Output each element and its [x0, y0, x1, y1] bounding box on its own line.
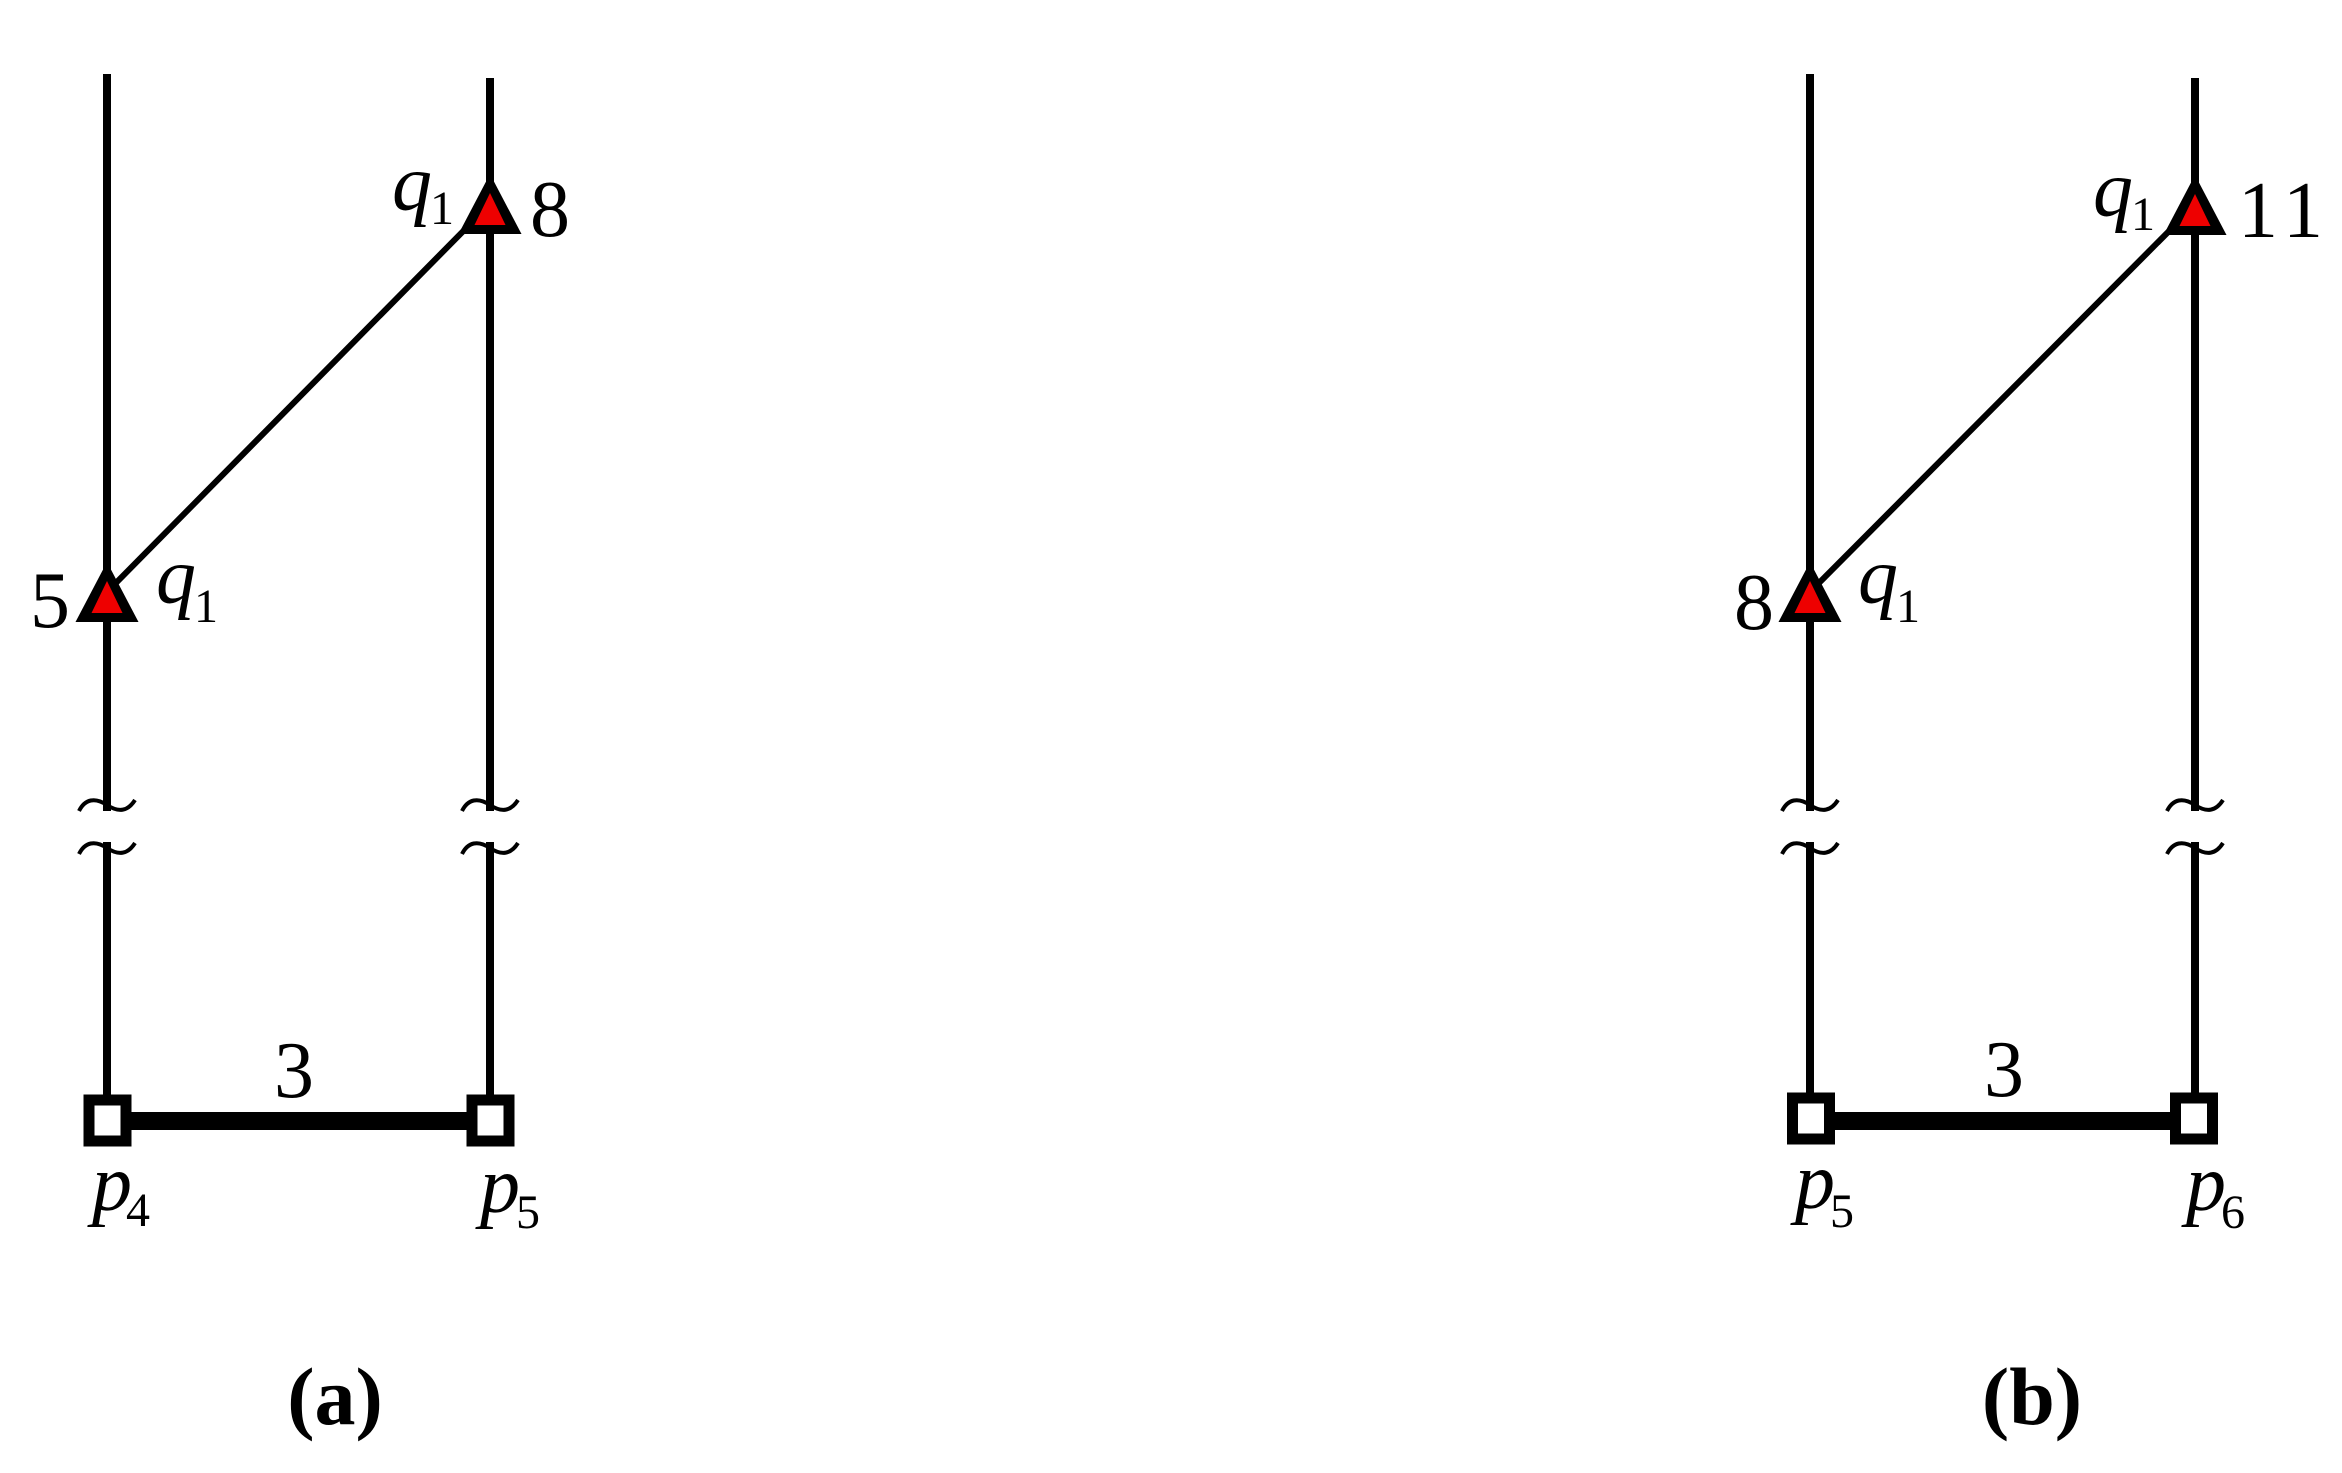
triangle marker q1 on p4 line (black outer): [76, 562, 139, 622]
svg-text:3: 3: [274, 1027, 314, 1115]
triangle marker q1 on p5 line (red inner): [475, 193, 506, 225]
svg-text:8: 8: [1734, 559, 1774, 647]
triangle marker q1 on p5 line (black outer): [459, 174, 522, 234]
wire: vertical line p6 upper segment: [2191, 78, 2199, 811]
wire: vertical line p5b lower segment: [1806, 842, 1814, 1096]
svg-text:11: 11: [2238, 167, 2331, 255]
svg-text:q: q: [156, 533, 196, 621]
svg-text:8: 8: [530, 166, 570, 254]
break mark upper tilde on p5b line: [1782, 800, 1838, 811]
triangle marker q1 on p5b line (red inner): [1795, 581, 1826, 613]
wire: vertical line p5b upper segment: [1806, 74, 1814, 811]
triangle marker q1 on p4 line (red inner): [92, 581, 123, 613]
wire: diagonal q1-q1 link (a): [107, 204, 490, 592]
svg-text:5: 5: [516, 1186, 540, 1239]
svg-text:p: p: [2181, 1140, 2226, 1228]
wire: vertical line p6 lower segment: [2191, 842, 2199, 1096]
svg-text:3: 3: [1984, 1026, 2024, 1114]
node square p4: [89, 1100, 126, 1141]
break mark lower tilde on p4 line: [79, 843, 135, 854]
break mark lower tilde on p5b line: [1782, 843, 1838, 854]
wire: diagonal q1-q1 link (b): [1810, 205, 2195, 592]
wire: vertical line p4 upper segment: [103, 74, 111, 811]
triangle marker q1 on p6 line (black outer): [2164, 175, 2227, 235]
svg-text:1: 1: [2131, 188, 2155, 241]
break mark lower tilde on p5 line: [462, 843, 518, 854]
node square p5b: [1793, 1098, 1830, 1139]
edge weight bar p4-p5: [125, 1112, 471, 1130]
svg-text:(b): (b): [1982, 1351, 2082, 1442]
svg-text:q: q: [2093, 146, 2133, 234]
wire: vertical line p4 lower segment: [103, 842, 111, 1096]
svg-text:5: 5: [30, 557, 70, 645]
svg-text:(a): (a): [287, 1351, 383, 1442]
svg-text:p: p: [475, 1142, 520, 1230]
triangle marker q1 on p6 line (red inner): [2180, 194, 2211, 226]
node square p6: [2176, 1098, 2213, 1139]
break mark upper tilde on p6 line: [2167, 800, 2223, 811]
wire: vertical line p5 lower segment: [486, 842, 494, 1096]
svg-text:q: q: [1858, 533, 1898, 621]
svg-text:1: 1: [430, 182, 454, 235]
break mark upper tilde on p4 line: [79, 800, 135, 811]
break mark lower tilde on p6 line: [2167, 843, 2223, 854]
svg-text:5: 5: [1830, 1185, 1854, 1238]
svg-text:q: q: [392, 140, 432, 228]
wire: vertical line p5 upper segment: [486, 78, 494, 811]
svg-text:1: 1: [194, 580, 218, 633]
svg-text:1: 1: [1896, 580, 1920, 633]
svg-text:p: p: [1790, 1138, 1835, 1226]
node square p5: [472, 1100, 509, 1141]
svg-text:6: 6: [2221, 1186, 2245, 1239]
svg-text:4: 4: [126, 1184, 150, 1237]
triangle marker q1 on p5b line (black outer): [1779, 562, 1842, 622]
break mark upper tilde on p5 line: [462, 800, 518, 811]
edge weight bar p5-p6: [1828, 1112, 2174, 1130]
